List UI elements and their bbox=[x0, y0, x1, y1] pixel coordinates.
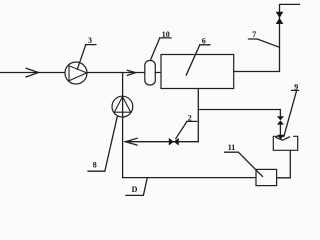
tank 9 bbox=[273, 136, 297, 150]
feed arrow bbox=[26, 68, 39, 77]
unit 6 bbox=[161, 55, 234, 89]
svg-text:7: 7 bbox=[252, 30, 256, 39]
wire valve 2 pipe bbox=[125, 141, 198, 143]
label 11 bbox=[225, 143, 263, 177]
label 7 bbox=[248, 30, 279, 47]
filter 10 bbox=[145, 61, 156, 86]
valve 9 (above tank) bbox=[277, 116, 284, 124]
box 11 bbox=[256, 169, 277, 185]
arrow after junction bbox=[127, 70, 135, 75]
pump 3 bbox=[65, 62, 87, 84]
label D bbox=[126, 178, 147, 196]
label 8 bbox=[88, 117, 117, 171]
svg-text:3: 3 bbox=[88, 36, 92, 45]
arrow into tank bbox=[277, 125, 284, 140]
valve 2 bbox=[169, 138, 179, 146]
pump 8 bbox=[112, 96, 133, 117]
label 3 bbox=[77, 36, 96, 69]
wire branch to tank valve bbox=[198, 110, 280, 117]
wire main feed pipe bbox=[0, 72, 145, 74]
wire capsule to unit 6 bbox=[155, 72, 161, 74]
wire bottom pipe D bbox=[123, 177, 256, 179]
label 10 bbox=[151, 30, 172, 60]
wire tank drain to box 11 bbox=[277, 150, 291, 178]
wire unit 6 bottom vertical bbox=[197, 89, 199, 142]
label 6 bbox=[186, 37, 210, 76]
label 2 bbox=[176, 113, 197, 138]
svg-text:11: 11 bbox=[228, 143, 236, 152]
arrow into pump line bbox=[125, 138, 137, 145]
wire junction vertical down through pump 8 bbox=[122, 73, 124, 178]
valve 7 bbox=[276, 12, 284, 24]
wire unit 6 output to top right bbox=[234, 4, 300, 71]
label 9 bbox=[284, 82, 299, 136]
svg-text:D: D bbox=[132, 185, 138, 194]
svg-text:8: 8 bbox=[93, 160, 97, 169]
